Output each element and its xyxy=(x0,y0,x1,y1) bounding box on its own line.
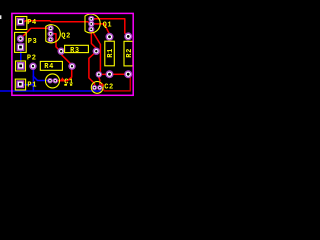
svg-text:R3: R3 xyxy=(70,47,80,55)
svg-text:R4: R4 xyxy=(44,63,54,71)
svg-text:Q1: Q1 xyxy=(103,21,113,29)
svg-text:Q2: Q2 xyxy=(61,33,71,41)
svg-text:P3: P3 xyxy=(28,38,38,46)
svg-text:P1: P1 xyxy=(27,81,37,89)
svg-text:R1: R1 xyxy=(107,48,115,58)
svg-text:P4: P4 xyxy=(27,19,37,27)
svg-text:P2: P2 xyxy=(27,55,37,63)
svg-text:C1: C1 xyxy=(64,79,74,87)
svg-text:C2: C2 xyxy=(104,83,114,91)
